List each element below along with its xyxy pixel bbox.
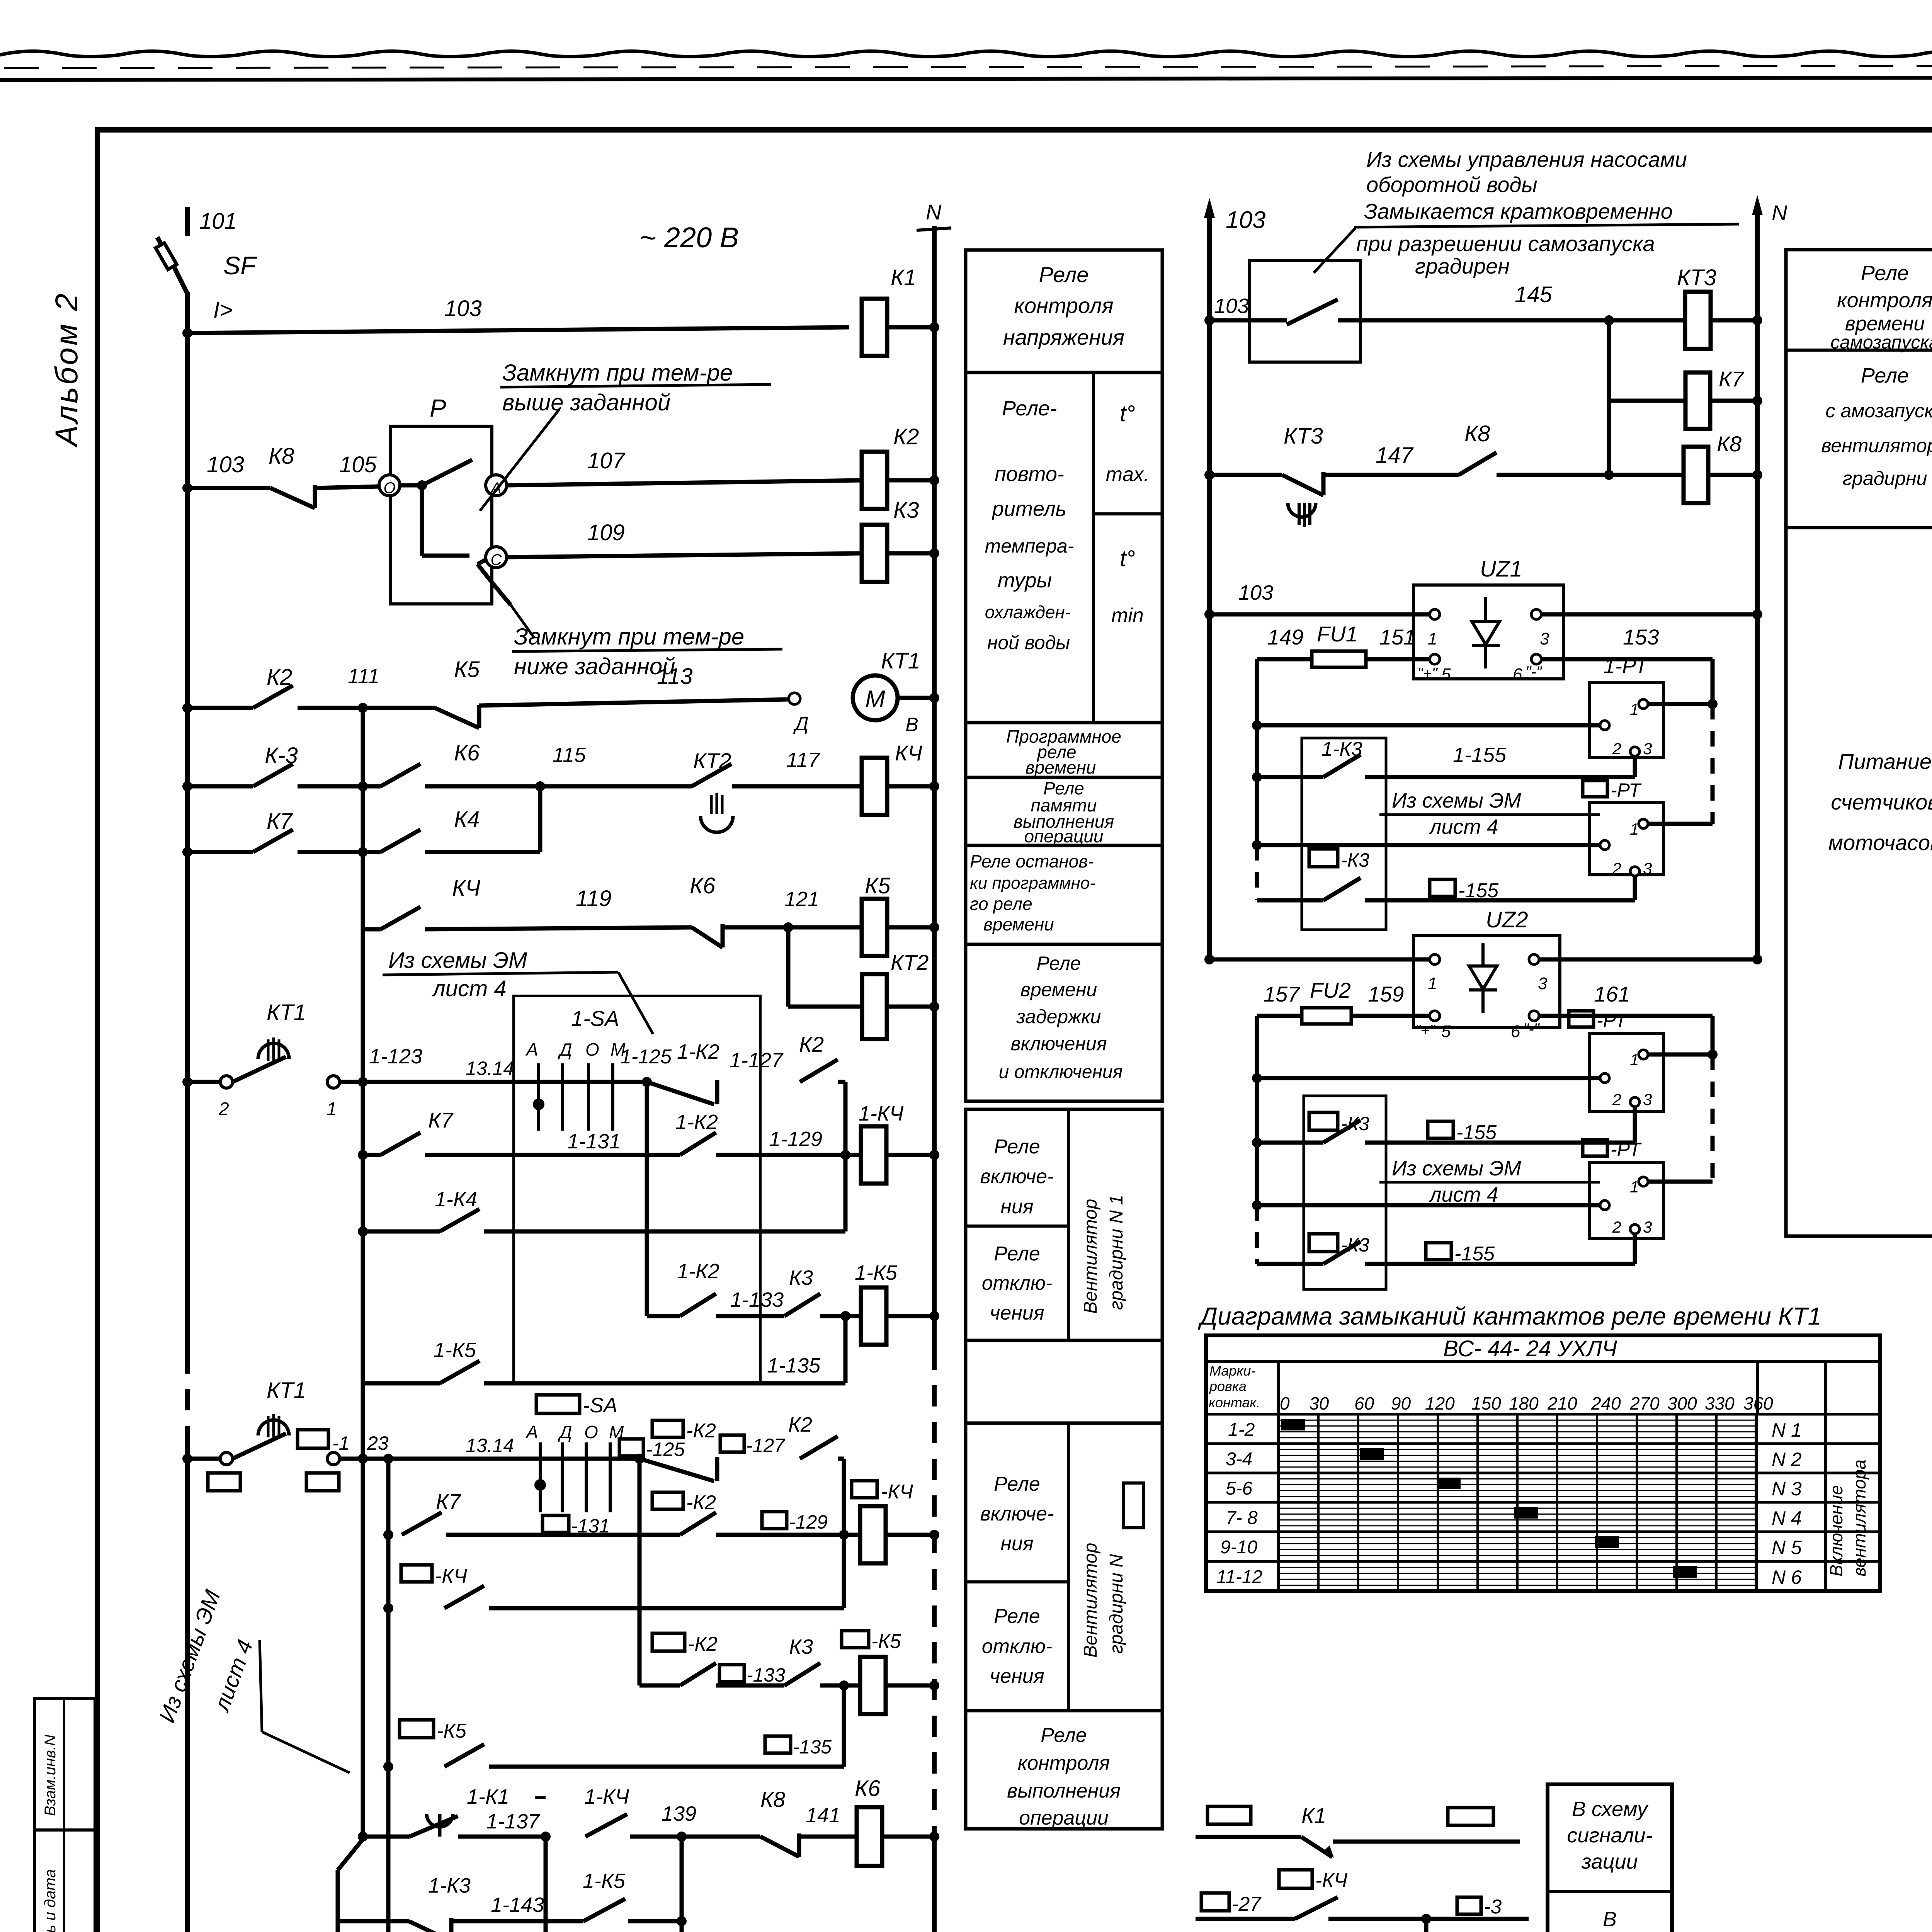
svg-text:-К5: -К5 — [437, 1720, 467, 1742]
svg-text:контроля: контроля — [1018, 1752, 1110, 1774]
node: parallel junction x=1412 — [541, 1832, 551, 1842]
svg-text:N 5: N 5 — [1772, 1537, 1802, 1558]
svg-text:"-": "-" — [1523, 1020, 1540, 1037]
svg-text:КТ1: КТ1 — [881, 648, 920, 673]
svg-text:и отключения: и отключения — [999, 1062, 1123, 1082]
svg-text:t°: t° — [1120, 546, 1135, 571]
wire □-135 — [489, 1765, 844, 1769]
wire 161: UZ2 minus to counters — [1539, 1014, 1713, 1018]
wire: counter feed drop 2 — [1711, 1016, 1715, 1054]
svg-text:1-127: 1-127 — [730, 1049, 784, 1072]
diagram closure mark 3-4 — [1360, 1448, 1384, 1460]
contact K1 (NO arrow) signal row — [1301, 1837, 1332, 1857]
node: 103 rail / UZ1 row — [1204, 609, 1214, 619]
wire: vertical 1-127 branch down — [844, 1082, 848, 1231]
svg-text:180: 180 — [1509, 1393, 1539, 1413]
wire □-155 (2) — [1365, 1141, 1635, 1145]
svg-text:К7: К7 — [428, 1108, 454, 1132]
relay coil K8 (middle) — [1684, 447, 1708, 503]
wire □-129 — [716, 1533, 844, 1537]
wire 1-143 — [451, 1919, 583, 1923]
wire: counter3 pin2 row — [1257, 1076, 1600, 1080]
wire: K2 coil to N — [887, 478, 934, 483]
wire: K1 coil to N — [887, 325, 934, 330]
svg-text:К8: К8 — [760, 1787, 785, 1811]
label □-133 — [719, 1665, 744, 1682]
svg-text:Вентилятор: Вентилятор — [1080, 1543, 1101, 1658]
node: signal rows tie — [1421, 1914, 1431, 1924]
node: N rail / K6 row — [929, 1832, 939, 1842]
contact K2 (NO) fanN 127 branch — [800, 1436, 838, 1459]
leader: note to upper switch arm — [480, 410, 559, 511]
fuse FU2 — [1302, 1008, 1351, 1024]
contact KT1 (NO with delay) fan1 — [233, 1057, 286, 1082]
wire: to feeder bus fanN — [340, 1457, 388, 1461]
label □-K4 signal — [1279, 1870, 1312, 1888]
svg-text:-РТ: -РТ — [1611, 779, 1642, 801]
svg-text:туры: туры — [998, 569, 1052, 592]
counter4 pin 2 — [1600, 1201, 1609, 1210]
torn paper top edge (wavy) — [0, 51, 1932, 56]
svg-text:Д: Д — [558, 1039, 572, 1060]
node: junction □-K5 coil row — [839, 1680, 849, 1690]
wire: N rail of middle section (x=4548) — [1752, 195, 1763, 215]
svg-text:150: 150 — [1471, 1393, 1501, 1413]
node: left feeder / counter2 pin2 row — [1252, 840, 1262, 850]
svg-text:КТ1: КТ1 — [267, 1378, 306, 1403]
svg-text:13.14: 13.14 — [466, 1435, 514, 1456]
svg-text:UZ2: UZ2 — [1486, 907, 1528, 932]
wire: counter4 pin1 to dashed feed — [1648, 1180, 1713, 1184]
label □-3 — [1457, 1897, 1481, 1914]
svg-text:времени: времени — [1845, 313, 1925, 335]
svg-text:-1: -1 — [332, 1432, 349, 1454]
svg-text:3: 3 — [1538, 974, 1548, 993]
svg-text:А: А — [525, 1039, 538, 1060]
selector fanN position bars — [539, 1442, 542, 1512]
svg-text:Вентилятор: Вентилятор — [1080, 1199, 1101, 1314]
wire: dashed counter feed continues — [1711, 704, 1715, 824]
contact 1-K5 (NO) row 1-135 — [440, 1361, 480, 1383]
contact 1-K4 (NO) row 139 — [585, 1814, 627, 1837]
svg-text:210: 210 — [1547, 1393, 1577, 1413]
wire: to contact □-K2 row □-133 — [639, 1684, 680, 1688]
counter2 pin 2 — [1600, 840, 1609, 850]
svg-text:К3: К3 — [893, 498, 919, 523]
wire: feeder into contact □-K3 (2) — [1257, 1141, 1323, 1145]
svg-text:161: 161 — [1594, 982, 1630, 1006]
svg-text:N 4: N 4 — [1772, 1507, 1802, 1529]
svg-text:чения: чения — [990, 1302, 1044, 1324]
wire: counter1 pin3 drop to 1-155 — [1633, 756, 1637, 777]
wire: feeder into contact 1-K3 — [1257, 775, 1323, 779]
svg-text:2: 2 — [1612, 1218, 1621, 1236]
svg-text:"-": "-" — [1526, 663, 1543, 680]
rectifier UZ1 box — [1413, 585, 1564, 679]
svg-text:Реле: Реле — [994, 1243, 1040, 1265]
wire: riser 139 dashed segment — [680, 1928, 684, 1932]
UZ2 diode symbol — [1481, 943, 1485, 966]
svg-text:119: 119 — [576, 886, 611, 911]
UZ2 pin 5 (+) — [1430, 1011, 1440, 1021]
wire: 103 to contact K-3 — [187, 784, 253, 789]
svg-text:5-6: 5-6 — [1226, 1478, 1253, 1499]
svg-text:Из схемы ЭМ: Из схемы ЭМ — [388, 948, 527, 973]
svg-text:чения: чения — [990, 1665, 1044, 1687]
svg-text:240: 240 — [1591, 1393, 1621, 1413]
svg-text:121: 121 — [784, 888, 819, 911]
svg-text:1-К5: 1-К5 — [855, 1261, 898, 1284]
svg-text:Из схемы управления насосами: Из схемы управления насосами — [1366, 147, 1687, 172]
wire: UZ2 left feeder — [1255, 1016, 1259, 1205]
node: N rail / □-K4 row — [929, 1530, 939, 1540]
wire 1-123: to selector 1-SA area — [363, 1080, 647, 1084]
wire: UZ1 pin 3 to N rail — [1541, 612, 1757, 617]
middle caption box: self-start time monitoring relay — [1786, 250, 1932, 1236]
leader: note to lower switch arm — [511, 605, 534, 638]
wire: counter3 pin3 drop — [1633, 1107, 1637, 1143]
svg-text:90: 90 — [1391, 1393, 1411, 1413]
leader to permissive contact box — [1314, 228, 1355, 273]
diagram left column divider — [1277, 1361, 1280, 1591]
diagram right columns dividers — [1755, 1414, 1758, 1591]
svg-text:FU1: FU1 — [1317, 622, 1358, 646]
destination box: to signal / fan control circuits — [1548, 1784, 1672, 1932]
wire: □-27 row left — [1196, 1917, 1295, 1921]
function column box: empty spacer — [966, 1340, 1162, 1423]
label □-РТ (2) — [1569, 1011, 1594, 1027]
svg-text:К2: К2 — [788, 1413, 812, 1436]
wire: to contact 1-K2 row 1-133 — [647, 1314, 680, 1318]
wire: vertical □-135 to □-K5 junction — [842, 1685, 846, 1767]
time relay KT1 motor symbol — [853, 675, 898, 720]
wire: vertical 127 branch fanN — [842, 1459, 846, 1608]
wire: junction to coil □-K5 — [820, 1684, 860, 1688]
svg-text:Реле останов-: Реле останов- — [970, 851, 1094, 871]
contact K2 (NO) — [253, 685, 293, 708]
svg-text:К8: К8 — [1464, 421, 1490, 446]
svg-text:операции: операции — [1024, 826, 1103, 846]
svg-text:-133: -133 — [747, 1664, 785, 1686]
svg-text:SF: SF — [223, 251, 257, 280]
diagram closure mark 9-10 — [1595, 1536, 1619, 1548]
hour counter □-РТ box (1) — [1589, 803, 1663, 875]
label □-K4 contact — [401, 1565, 432, 1582]
wire: K8 to terminal O — [315, 486, 379, 488]
counter2 pin 1 — [1639, 819, 1648, 828]
svg-text:ниже заданной: ниже заданной — [514, 653, 675, 679]
svg-text:В схему: В схему — [1572, 1798, 1649, 1821]
wire 1-155 — [1365, 775, 1635, 779]
svg-text:151: 151 — [1379, 625, 1415, 649]
wire: K3 coil to N — [887, 551, 934, 556]
label □-K5 contact fanN — [400, 1720, 434, 1738]
svg-text:1-К5: 1-К5 — [583, 1869, 626, 1893]
wire 103: row to relay K1 — [187, 327, 849, 333]
svg-text:ровка: ровка — [1209, 1378, 1247, 1394]
svg-text:3: 3 — [1643, 1090, 1652, 1109]
svg-text:-КЧ: -КЧ — [435, 1565, 468, 1587]
svg-text:лист 4: лист 4 — [1429, 815, 1498, 838]
svg-text:повто-: повто- — [995, 463, 1064, 486]
svg-text:1-137: 1-137 — [486, 1810, 540, 1833]
svg-text:включения: включения — [1011, 1033, 1107, 1054]
node: junction 1-K5 coil row — [840, 1311, 850, 1321]
wire: K8 coil to N — [1708, 473, 1757, 477]
wire: 103 rail dashed segment — [185, 1352, 190, 1447]
svg-text:счетчиков: счетчиков — [1831, 790, 1932, 814]
label □-K5 coil — [842, 1631, 869, 1648]
svg-text:1-К2: 1-К2 — [677, 1040, 719, 1063]
svg-text:К8: К8 — [1717, 432, 1742, 456]
svg-text:К8: К8 — [269, 444, 294, 469]
contact K6 (NC) — [692, 927, 723, 947]
UZ2 pin 3 — [1529, 954, 1539, 964]
svg-text:N: N — [926, 200, 942, 224]
wire: KT3 coil to N — [1711, 318, 1757, 323]
wire: □-K4 row to 127 branch — [489, 1606, 844, 1611]
svg-text:-К3: -К3 — [1341, 1234, 1369, 1256]
diagram table outer box — [1206, 1335, 1880, 1591]
wire: tie riser x=4164 — [1607, 320, 1611, 475]
diagram closure mark 11-12 — [1673, 1566, 1697, 1578]
diagram body column lines — [1277, 1414, 1280, 1591]
relay coil 1-K4 (1-КЧ) — [861, 1126, 886, 1184]
net label □-123 — [298, 1430, 328, 1448]
relay coil K1 — [862, 299, 887, 356]
svg-text:105: 105 — [339, 452, 377, 477]
svg-text:вентилятора: вентилятора — [1821, 435, 1932, 456]
svg-text:101: 101 — [199, 209, 237, 234]
svg-text:~ 220 В: ~ 220 В — [639, 221, 739, 253]
svg-text:1-SA: 1-SA — [571, 1006, 619, 1031]
terminal circle O — [379, 475, 400, 496]
svg-text:1: 1 — [1428, 629, 1437, 648]
label □-K2 lower fanN — [652, 1633, 685, 1651]
wire: to riser node — [628, 1919, 682, 1923]
UZ1 pin 1 — [1430, 609, 1440, 619]
wire: counter1 pin1 to feed — [1648, 702, 1713, 706]
terminal circle A — [486, 475, 507, 496]
node: N rail / 1-K5 row — [929, 1311, 939, 1321]
svg-text:2: 2 — [1612, 859, 1621, 878]
node: counter3 pin1 tap — [1708, 1049, 1718, 1060]
node: branch feeder / □-K4 row — [383, 1603, 393, 1613]
wire: 1-K4 coil to N — [886, 1153, 934, 1157]
svg-text:1-131: 1-131 — [567, 1130, 621, 1153]
selector □-SA label — [536, 1395, 580, 1413]
node: N rail / K7 row — [1752, 396, 1762, 406]
UZ1 pin 5 (+) — [1430, 654, 1440, 664]
contact K7 (NO) — [253, 830, 293, 852]
node: N rail / K1 row — [929, 322, 939, 332]
svg-text:N 3: N 3 — [1772, 1478, 1802, 1500]
wire: K2 contact to corner — [838, 1080, 845, 1084]
node 139 — [677, 1832, 687, 1842]
svg-text:включе-: включе- — [980, 1503, 1054, 1525]
wire: K6 to node 115 — [425, 784, 540, 789]
svg-text:Замыкается кратковременно: Замыкается кратковременно — [1364, 199, 1673, 223]
UZ1 pin 3 — [1531, 609, 1541, 619]
svg-text:выполнения: выполнения — [1007, 1780, 1121, 1802]
node: tie riser / K8 row — [1604, 470, 1614, 480]
relay coil K4 (КЧ) — [862, 758, 887, 815]
svg-text:3: 3 — [1540, 629, 1549, 648]
contact 1-K4 (NO) self-hold — [440, 1209, 480, 1231]
wire: 1-K1 contact to parallel junction — [458, 1835, 546, 1839]
wire: branch feeder bus x=1005 fanN — [386, 1459, 391, 1932]
svg-text:107: 107 — [587, 448, 626, 473]
node: left feeder / 1-155 row — [1252, 772, 1262, 782]
svg-text:1: 1 — [1630, 1051, 1639, 1069]
svg-text:Реле: Реле — [994, 1605, 1040, 1628]
label □-131 — [543, 1515, 569, 1532]
node: KT3/K7/K8 tie riser top — [1604, 315, 1614, 325]
svg-text:Диаграмма замыканий кантактов: Диаграмма замыканий кантактов реле време… — [1198, 1302, 1821, 1330]
svg-text:К2: К2 — [893, 424, 919, 449]
svg-text:охлажден-: охлажден- — [985, 602, 1071, 622]
relay coil □-K5 — [860, 1657, 886, 1714]
svg-text:отклю-: отклю- — [982, 1272, 1053, 1294]
label □-K4 coil — [852, 1481, 877, 1498]
svg-text:1: 1 — [1630, 700, 1639, 718]
svg-text:М: М — [865, 686, 885, 713]
svg-text:КТ2: КТ2 — [891, 950, 929, 975]
node: feeder2 / counter3 pin2 row — [1252, 1073, 1262, 1083]
label □-РТ (3) — [1583, 1140, 1607, 1156]
svg-text:139: 139 — [662, 1802, 696, 1825]
node: N rail / K5 row — [929, 922, 939, 932]
svg-text:min: min — [1111, 604, 1144, 627]
svg-text:ной воды: ной воды — [987, 632, 1070, 653]
svg-text:1-2: 1-2 — [1228, 1420, 1255, 1440]
wire: signal tie riser — [1424, 1919, 1429, 1932]
wire: K4 contact joining node 115 branch — [425, 850, 540, 854]
contact KT2 (NO, time delay) — [692, 764, 731, 786]
wire: counter4 pin3 drop — [1633, 1234, 1637, 1264]
svg-text:149: 149 — [1267, 625, 1303, 649]
svg-text:го реле: го реле — [970, 894, 1032, 914]
svg-text:оборотной воды: оборотной воды — [1366, 172, 1537, 197]
svg-text:103: 103 — [1238, 581, 1273, 604]
node: P common — [417, 480, 427, 490]
contact K7 (NO) fanN — [402, 1512, 442, 1535]
contact K8 (NO) row 147 — [1459, 452, 1497, 475]
label □-K3 contact upper — [1309, 849, 1338, 867]
placeholder box terminal 1 fanN — [306, 1473, 339, 1491]
svg-text:UZ1: UZ1 — [1480, 556, 1522, 582]
node 115 — [535, 781, 545, 791]
node: N rail / K4 row — [929, 781, 939, 791]
svg-text:отклю-: отклю- — [982, 1635, 1053, 1658]
svg-text:Р: Р — [430, 394, 446, 422]
svg-text:КТ3: КТ3 — [1677, 265, 1716, 290]
node: feeder bus / K7 fan1 row — [358, 1150, 368, 1160]
svg-text:5: 5 — [1441, 1022, 1451, 1041]
wire: □ feeder into contact □-K3 — [1257, 898, 1323, 903]
selector 1-SA position bars — [537, 1063, 540, 1131]
wire 119 — [425, 927, 692, 929]
label □-K3 contact (3) — [1309, 1234, 1338, 1252]
svg-text:К7: К7 — [1719, 367, 1744, 391]
wire 157: fuse2 feed — [1257, 1014, 1302, 1018]
counter4 pin 1 — [1639, 1177, 1648, 1186]
wire: corner to vertical fanN — [838, 1457, 844, 1461]
relay coil K2 — [862, 452, 887, 509]
wire 147 — [1323, 473, 1459, 477]
UZ1 pin 6 (-) — [1531, 654, 1541, 664]
svg-text:контроля: контроля — [1837, 289, 1932, 312]
terminal circle (1) fanN — [327, 1452, 340, 1465]
svg-text:К2: К2 — [267, 665, 292, 690]
counter1 pin 3 — [1630, 747, 1639, 756]
svg-text:Реле: Реле — [994, 1473, 1040, 1495]
svg-text:ния: ния — [1000, 1532, 1033, 1555]
wire: 1-K5 coil to N — [886, 1314, 934, 1318]
relay coil KT3 — [1685, 292, 1711, 349]
node: N rail / KT3 row — [1752, 315, 1762, 325]
svg-text:Реле: Реле — [1861, 364, 1909, 387]
svg-text:Замкнут при тем-ре: Замкнут при тем-ре — [502, 360, 733, 386]
svg-text:13.14: 13.14 — [466, 1058, 514, 1079]
svg-text:задержки: задержки — [1016, 1006, 1101, 1027]
svg-text:С: С — [491, 551, 502, 568]
node: 103 rail / permissive row — [1204, 315, 1214, 325]
svg-text:I>: I> — [213, 298, 233, 323]
contact KT3 (NC with delay) — [1282, 475, 1323, 495]
svg-text:30: 30 — [1309, 1393, 1329, 1413]
svg-text:7- 8: 7- 8 — [1226, 1508, 1258, 1528]
contact □-K5 (NO) row □-135 — [444, 1744, 484, 1767]
svg-text:2: 2 — [1612, 1090, 1621, 1109]
svg-text:103: 103 — [1214, 294, 1249, 318]
svg-text:времени: времени — [983, 914, 1054, 934]
node: left feeder / counter1 pin2 row — [1252, 720, 1262, 730]
wire: 103 rail lower segment with end arrow — [185, 1447, 190, 1932]
svg-text:времени: времени — [1026, 757, 1096, 777]
function column box: operation memory relay — [966, 777, 1162, 845]
node: N rail / K3 row — [929, 548, 939, 558]
contacts group box (□-K3 fan N) — [1304, 1096, 1386, 1289]
node: feeder bus / 1-K4 row — [358, 1226, 368, 1236]
svg-text:1-129: 1-129 — [769, 1128, 822, 1151]
svg-text:ритель: ритель — [992, 497, 1066, 520]
wire: riser 139 down solid — [680, 1837, 684, 1928]
svg-text:-131: -131 — [571, 1515, 610, 1537]
node: N rail / K2 row — [929, 475, 939, 485]
selector switch 1-SA enclosure — [514, 996, 760, 1383]
svg-text:К3: К3 — [789, 1635, 813, 1658]
contact □-K3 (NO) counters 2 — [1323, 1120, 1361, 1143]
svg-text:5: 5 — [1441, 665, 1451, 684]
wire: terminal 1 to node — [340, 1080, 363, 1084]
function column box: switching-on relay fan1 — [966, 1109, 1162, 1340]
wire □-155 — [1365, 898, 1635, 903]
node: riser / 1-143 row — [677, 1916, 687, 1926]
svg-text:Включение: Включение — [1826, 1485, 1846, 1577]
function column box: temperature repeater relay — [966, 372, 1162, 723]
wire: N rail (vertical bus x=2418) upper — [932, 226, 937, 1349]
contact 1-K3 (NC) — [409, 1921, 451, 1932]
hour counter 1-РТ box — [1589, 683, 1663, 757]
wire: feeder bus lower segment to 1-K1 row — [361, 1383, 365, 1837]
wire: counter feed drop x=4432 — [1711, 659, 1715, 704]
svg-text:лист 4: лист 4 — [1429, 1183, 1498, 1206]
svg-text:при разрешении самозапуска: при разрешении самозапуска — [1356, 231, 1655, 256]
UZ2 pin 1 — [1430, 954, 1440, 964]
contact □-K3 (NO) counters 3 — [1323, 1242, 1361, 1264]
left margin stamp strip — [35, 1699, 95, 1932]
